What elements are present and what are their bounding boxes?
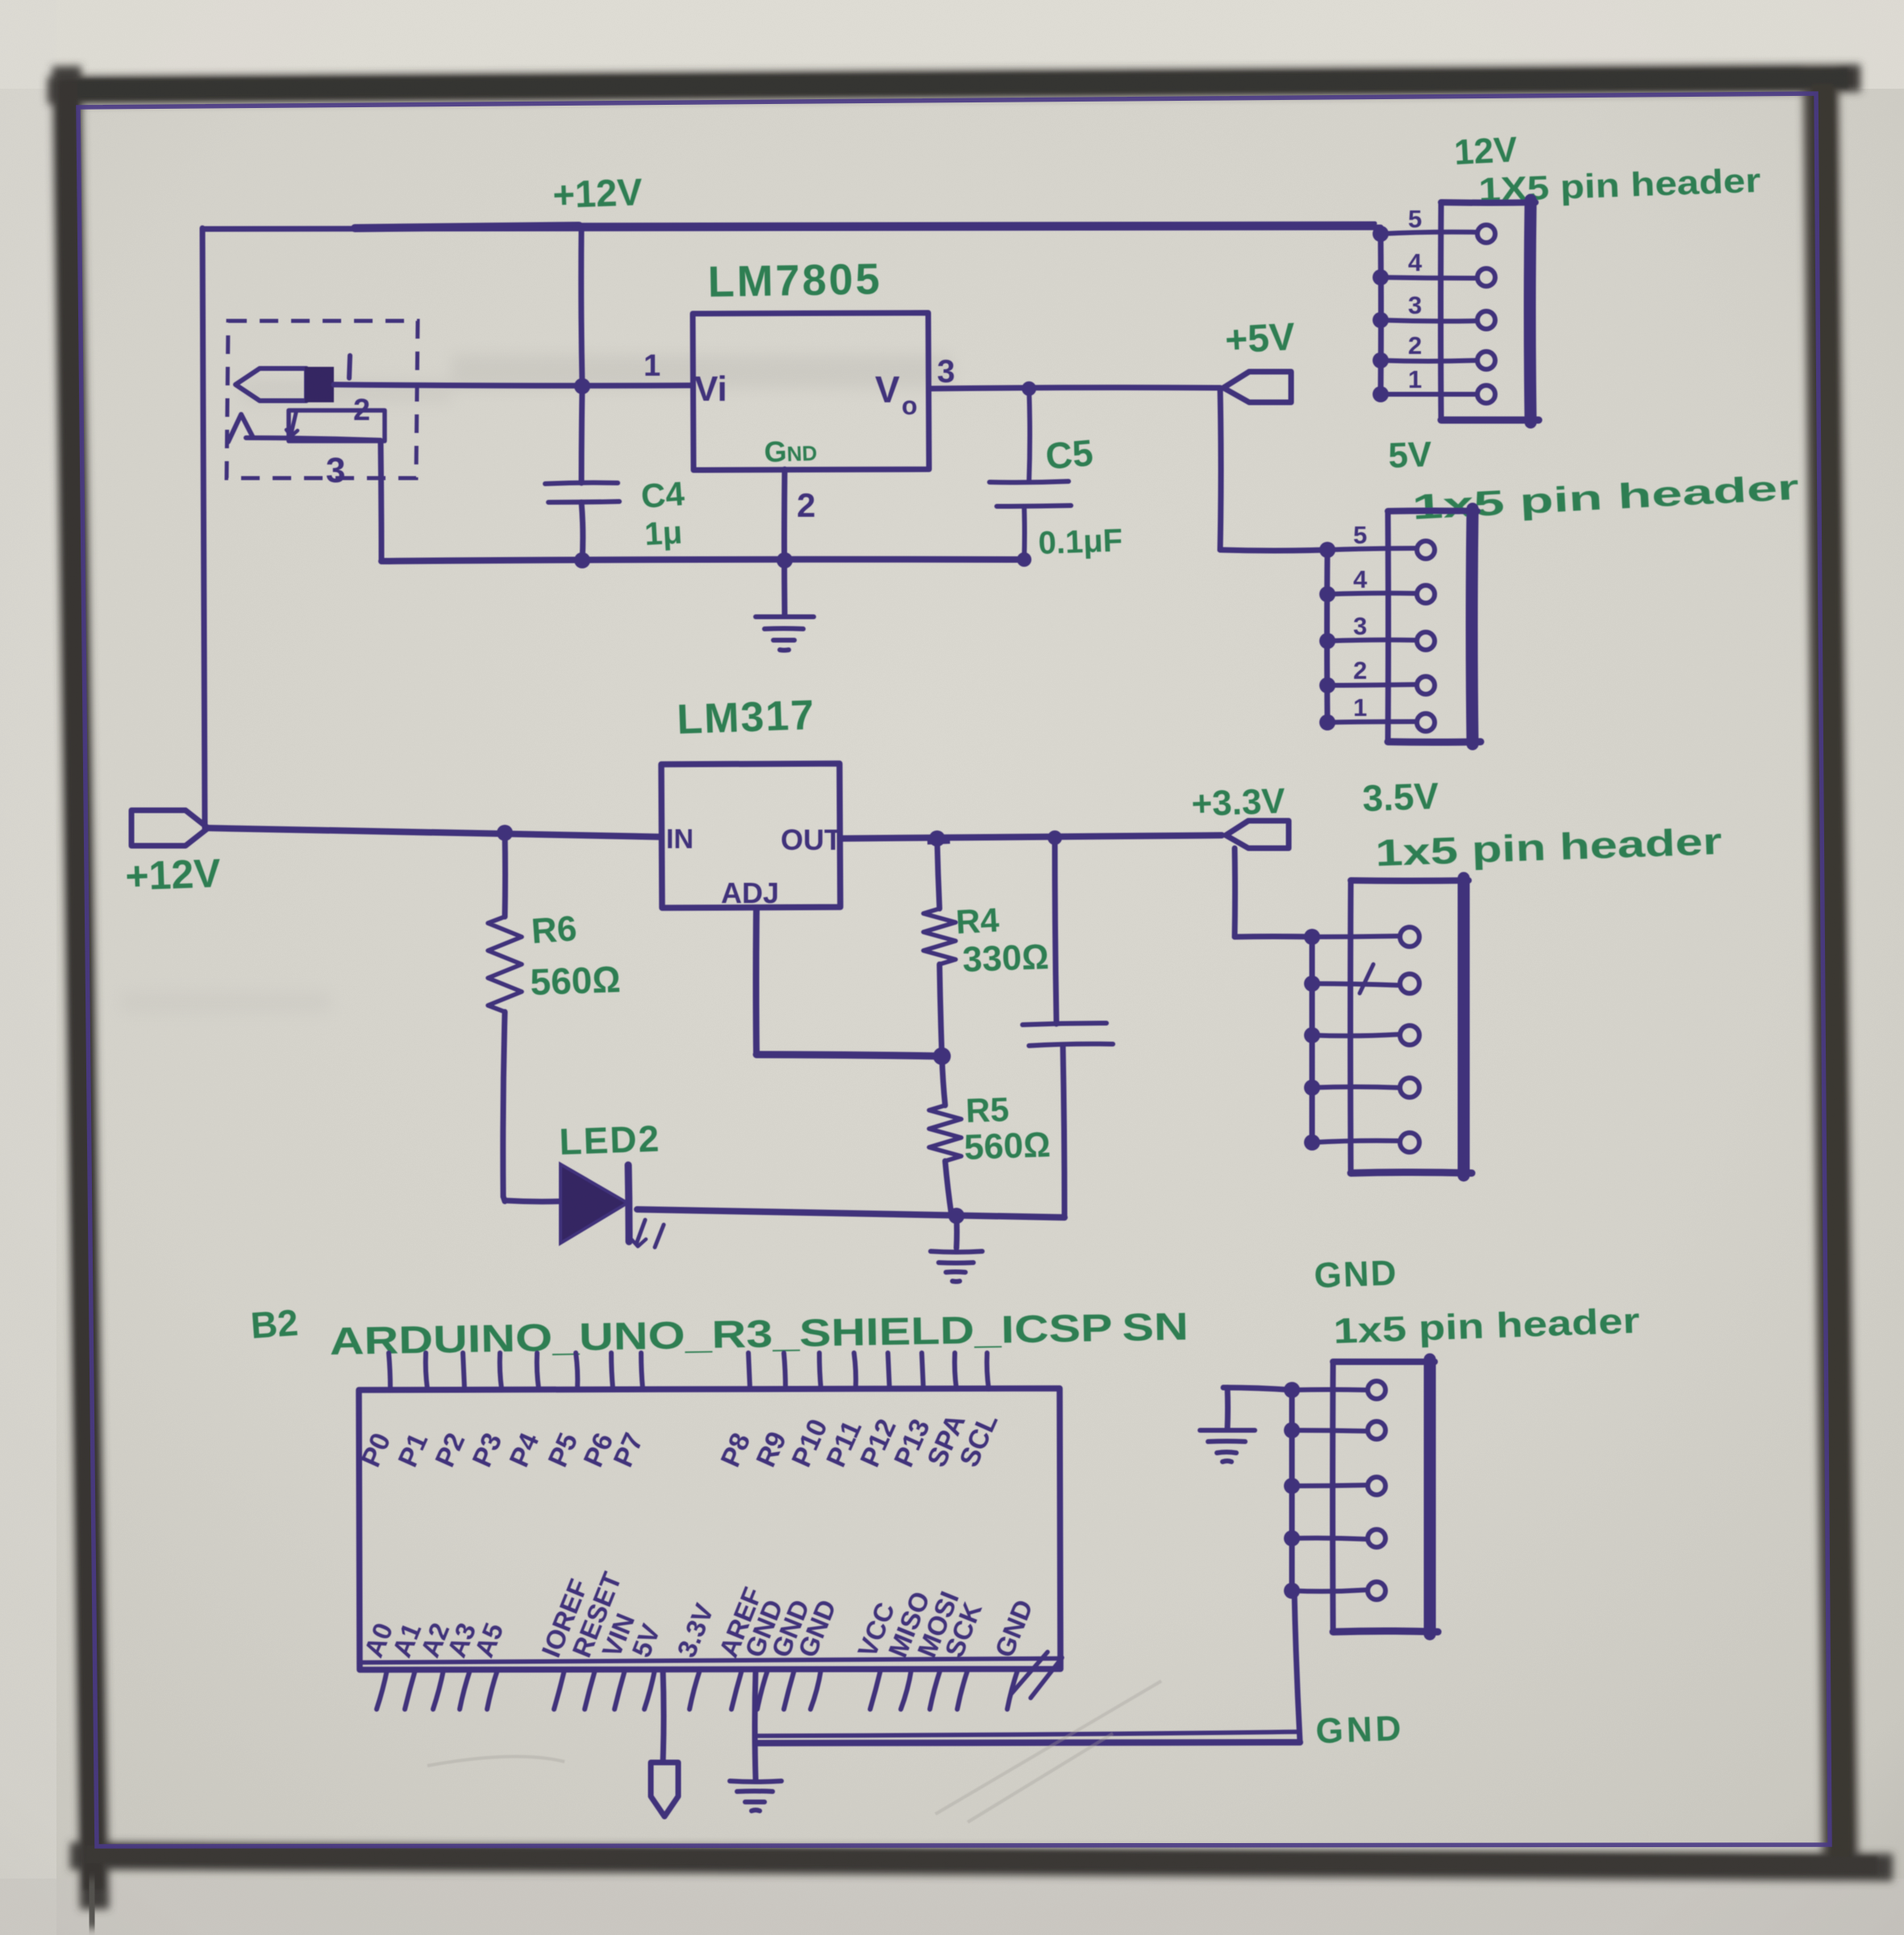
svg-text:1μ: 1μ xyxy=(644,515,683,552)
svg-text:OUT: OUT xyxy=(781,823,842,856)
svg-text:560Ω: 560Ω xyxy=(530,958,622,1003)
svg-text:+12V: +12V xyxy=(552,170,644,216)
svg-text:GND: GND xyxy=(1314,1253,1398,1296)
capacitor C4 xyxy=(545,474,686,560)
svg-text:5: 5 xyxy=(1353,521,1367,549)
wire +5V to 5V header bus xyxy=(1220,389,1327,551)
svg-text:+5V: +5V xyxy=(1224,316,1296,362)
svg-text:R4: R4 xyxy=(955,901,1001,941)
svg-text:1: 1 xyxy=(644,349,660,383)
capacitor C5 xyxy=(989,389,1123,561)
wire ADJ to divider xyxy=(756,908,952,1065)
resistor R4 330 ohm xyxy=(923,838,1050,1056)
svg-text:330Ω: 330Ω xyxy=(962,937,1050,980)
svg-text:0.1μF: 0.1μF xyxy=(1038,522,1123,561)
svg-text:3: 3 xyxy=(937,354,955,389)
ground at Arduino GND pin xyxy=(730,1670,781,1811)
wire +12V drop to input node xyxy=(574,227,590,483)
node +5V connector xyxy=(1223,316,1296,402)
IC title ARDUINO_UNO_R3_SHIELD_ICSPSN xyxy=(329,1305,1189,1363)
wire GND net Arduino to GND header xyxy=(756,1591,1405,1751)
wire left vertical from top bus to +12V connector xyxy=(202,228,205,828)
svg-text:R6: R6 xyxy=(530,909,578,951)
node +12V left connector xyxy=(124,810,222,899)
node 5V bottom connector xyxy=(651,1670,678,1816)
regulator U1 LM7805 xyxy=(644,255,955,524)
ground at GND header input xyxy=(1200,1388,1292,1462)
svg-text:3.5V: 3.5V xyxy=(1362,775,1440,819)
svg-text:2: 2 xyxy=(1353,656,1367,685)
wire LM317 OUT node xyxy=(840,830,1222,847)
capacitor C6 output cap xyxy=(1023,838,1113,1217)
resistor R6 560 ohm xyxy=(488,825,621,1196)
ground below divider xyxy=(931,1216,982,1282)
svg-text:1: 1 xyxy=(1408,365,1422,393)
resistor R5 560 ohm xyxy=(929,1056,1052,1216)
IC B2 label xyxy=(249,1301,299,1346)
connector 12V 1x5 pin header xyxy=(1373,130,1761,422)
svg-text:ADJ: ADJ xyxy=(721,876,779,909)
LED LED2 xyxy=(503,1117,664,1247)
connector J1 DC barrel jack xyxy=(227,321,693,561)
svg-text:LED2: LED2 xyxy=(559,1117,661,1163)
wire +12V to LM317 IN xyxy=(208,828,661,837)
svg-text:+12V: +12V xyxy=(124,851,222,899)
svg-text:3: 3 xyxy=(326,451,345,490)
svg-text:GND: GND xyxy=(1315,1708,1405,1751)
svg-text:Vi: Vi xyxy=(694,369,727,409)
connector 5V 1x5 pin header xyxy=(1319,435,1800,744)
svg-text:B2: B2 xyxy=(249,1301,299,1346)
svg-text:3: 3 xyxy=(1353,612,1367,640)
svg-text:o: o xyxy=(902,391,918,420)
svg-text:C5: C5 xyxy=(1044,431,1094,477)
svg-text:+3.3V: +3.3V xyxy=(1191,781,1287,824)
wire +12V top bus xyxy=(203,223,1381,229)
connector 3.3V 1x5 pin header xyxy=(1304,820,1723,1176)
svg-text:LM317: LM317 xyxy=(676,692,816,743)
node +12V top xyxy=(552,170,644,216)
svg-text:5: 5 xyxy=(1408,205,1422,233)
svg-text:3: 3 xyxy=(1408,291,1422,319)
svg-text:V: V xyxy=(875,368,900,410)
wire ground return of 7805 stage xyxy=(381,552,1031,568)
ground below U1 GND pin xyxy=(756,469,814,651)
svg-text:5V: 5V xyxy=(1388,435,1433,476)
svg-text:560Ω: 560Ω xyxy=(964,1125,1052,1167)
wire Vo output node xyxy=(929,381,1220,396)
svg-text:4: 4 xyxy=(1408,248,1423,277)
svg-text:LM7805: LM7805 xyxy=(707,255,882,306)
svg-text:C4: C4 xyxy=(640,474,685,515)
svg-text:2: 2 xyxy=(797,486,815,524)
svg-text:1: 1 xyxy=(1353,693,1367,722)
svg-text:2: 2 xyxy=(1408,331,1422,360)
wire +3.3V to 3.3V header bus xyxy=(1235,848,1312,937)
svg-text:R5: R5 xyxy=(965,1090,1010,1130)
svg-text:12V: 12V xyxy=(1453,130,1519,173)
wire 3.3V stage ground return xyxy=(637,1208,1064,1224)
node +3.3V connector xyxy=(1191,775,1440,848)
connector GND 1x5 pin header xyxy=(1284,1253,1640,1634)
svg-text:4: 4 xyxy=(1353,565,1368,593)
IC B2 Arduino UNO R3 shield body xyxy=(356,1353,1062,1709)
svg-text:IN: IN xyxy=(666,824,694,855)
regulator U2 LM317 xyxy=(661,692,842,909)
